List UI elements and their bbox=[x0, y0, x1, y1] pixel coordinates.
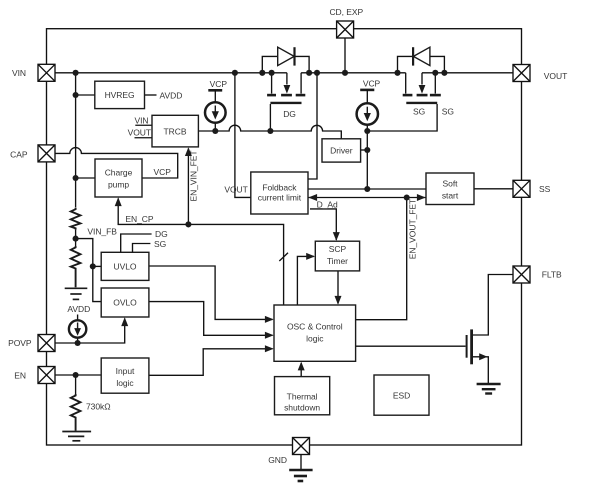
pin FLTB bbox=[513, 266, 562, 283]
svg-text:pump: pump bbox=[108, 180, 129, 190]
wire thermal shutdown to OSC bbox=[300, 363, 302, 377]
wire HVREG input bbox=[76, 94, 95, 96]
svg-text:CD, EXP: CD, EXP bbox=[329, 7, 363, 17]
wire TRCB output to gate node (with hops) bbox=[198, 125, 341, 139]
chip boundary bbox=[47, 29, 522, 445]
svg-text:SG: SG bbox=[154, 239, 166, 249]
wire EN_VOUT_FET bbox=[356, 198, 407, 320]
wire middle rail sense to foldback bbox=[308, 73, 317, 179]
svg-text:Foldback: Foldback bbox=[262, 182, 297, 192]
ground (VIN divider) bbox=[65, 288, 88, 299]
wire OSC to output FET gate bbox=[356, 345, 466, 347]
svg-text:VIN_FB: VIN_FB bbox=[87, 227, 117, 237]
svg-text:SCP: SCP bbox=[329, 244, 347, 254]
svg-text:shutdown: shutdown bbox=[284, 402, 320, 412]
svg-text:VOUT: VOUT bbox=[128, 127, 151, 137]
pin CD, EXP bbox=[329, 7, 363, 38]
block TRCB bbox=[152, 115, 198, 147]
wire UVLO SG sense stub bbox=[133, 244, 151, 253]
block Driver bbox=[322, 139, 361, 162]
wire EN to 730k resistor bbox=[75, 375, 77, 394]
wire POVP pin to OVLO bbox=[55, 319, 125, 344]
svg-text:Soft: Soft bbox=[443, 179, 459, 189]
svg-text:CAP: CAP bbox=[10, 149, 28, 159]
wire CD,EXP pin to rail bbox=[344, 38, 346, 73]
wire EN pin to input logic bbox=[55, 374, 101, 376]
wire GND pin to ground bbox=[300, 455, 302, 471]
svg-text:VIN: VIN bbox=[134, 115, 148, 125]
svg-text:UVLO: UVLO bbox=[114, 262, 137, 272]
svg-text:VCP: VCP bbox=[363, 79, 381, 89]
wire UVLO input bbox=[93, 265, 101, 267]
pin VOUT bbox=[513, 65, 567, 82]
svg-text:VIN: VIN bbox=[12, 68, 26, 78]
svg-text:FLTB: FLTB bbox=[542, 270, 562, 280]
svg-text:start: start bbox=[442, 191, 459, 201]
arrow into OSC left (Input logic) bbox=[265, 345, 274, 352]
pin POVP bbox=[8, 335, 55, 352]
wire EN_VIN_FET branch bbox=[187, 149, 189, 225]
svg-text:POVP: POVP bbox=[8, 338, 32, 348]
svg-text:SG: SG bbox=[442, 107, 454, 117]
svg-text:Timer: Timer bbox=[327, 256, 348, 266]
svg-text:DG: DG bbox=[283, 109, 296, 119]
wire D_Ad line bbox=[308, 197, 426, 199]
svg-text:D_Ad: D_Ad bbox=[317, 199, 338, 209]
label VOUT input of TRCB bbox=[128, 127, 152, 137]
transistor Q3 (FLTB open-drain FET) bbox=[467, 329, 488, 364]
arrow into OVLO bottom bbox=[121, 317, 128, 326]
svg-text:SS: SS bbox=[539, 184, 551, 194]
pin GND bbox=[268, 438, 309, 465]
block OVLO bbox=[101, 288, 149, 317]
ground (730k) bbox=[62, 432, 91, 441]
wire CAP pin to charge pump VCP (with hop) bbox=[55, 148, 178, 178]
wire OVLO output to OSC bbox=[149, 302, 273, 336]
current source I2 VCP (right) bbox=[357, 79, 381, 125]
block Thermal shutdown bbox=[275, 377, 330, 415]
wire VIN branch down from rail bbox=[75, 73, 77, 208]
block Soft start bbox=[426, 173, 474, 205]
block UVLO bbox=[101, 252, 149, 280]
wire soft start to SS pin bbox=[474, 188, 513, 190]
svg-text:ESD: ESD bbox=[393, 391, 410, 401]
diode D1 (DG body diode) bbox=[262, 47, 309, 73]
svg-text:EN_VIN_FET: EN_VIN_FET bbox=[189, 151, 199, 202]
ground (GND pin) bbox=[289, 470, 312, 481]
wire SG gate to drive node bbox=[367, 104, 437, 131]
current source I3 AVDD bbox=[67, 304, 90, 338]
arrow into OSC bottom (thermal) bbox=[298, 362, 305, 371]
transistor Q2 SG FET bbox=[403, 73, 441, 117]
arrow into OSC top (SCP) bbox=[335, 296, 342, 305]
wire UVLO DG sense stub bbox=[121, 234, 152, 252]
svg-text:Charge: Charge bbox=[105, 168, 133, 178]
svg-text:EN_VOUT_FET: EN_VOUT_FET bbox=[408, 199, 418, 259]
wire rail to foldback VOUT input bbox=[235, 73, 251, 198]
block SCP Timer bbox=[315, 241, 359, 271]
arrow into soft start left (D_Ad) bbox=[417, 194, 426, 201]
arrow into TRCB (EN_VIN_FET) bbox=[185, 147, 192, 156]
svg-text:VOUT: VOUT bbox=[224, 185, 247, 195]
svg-text:OSC & Control: OSC & Control bbox=[287, 322, 343, 332]
arrow into SCP top (D_Ad) bbox=[333, 232, 340, 241]
transistor Q1 DG FET bbox=[267, 73, 305, 119]
block ESD bbox=[374, 375, 429, 415]
block Input logic bbox=[101, 358, 149, 393]
svg-text:VCP: VCP bbox=[154, 167, 172, 177]
arrow into charge pump (EN_CP) bbox=[115, 197, 122, 206]
wire VIN resistor tap to UVLO/OVLO bbox=[76, 239, 102, 302]
diode D2 (SG body diode) bbox=[398, 47, 445, 73]
wire VIN rail bbox=[55, 72, 287, 74]
arrow into OSC left (OVLO) bbox=[265, 332, 274, 339]
block Foldback current limit bbox=[251, 172, 308, 214]
arrow into OSC left (UVLO) bbox=[265, 316, 274, 323]
ground (FLTB FET source) bbox=[477, 384, 501, 394]
resistor R1 (VIN divider upper) bbox=[71, 208, 81, 230]
pin VIN bbox=[12, 64, 55, 81]
resistor R3 730k bbox=[71, 394, 81, 431]
block HVREG bbox=[95, 81, 145, 108]
svg-text:730kΩ: 730kΩ bbox=[86, 402, 111, 412]
svg-text:EN: EN bbox=[14, 371, 26, 381]
label VIN input of TRCB bbox=[134, 115, 151, 125]
block OSC & Control logic bbox=[274, 305, 356, 361]
wire input logic output to OSC bbox=[149, 349, 273, 376]
svg-text:VCP: VCP bbox=[210, 79, 228, 89]
wire UVLO output to OSC bbox=[149, 266, 273, 319]
svg-text:SG: SG bbox=[413, 107, 425, 117]
arrow into SCP left (OSC) bbox=[306, 253, 315, 260]
wire DG gate down bbox=[269, 104, 271, 131]
wire AVDD current source to POVP line bbox=[77, 315, 79, 344]
svg-text:Driver: Driver bbox=[330, 146, 353, 156]
svg-text:logic: logic bbox=[116, 378, 134, 388]
svg-text:DG: DG bbox=[155, 229, 168, 239]
arrow into foldback right (D_Ad) bbox=[308, 194, 317, 201]
wire HVREG output to AVDD bbox=[145, 94, 157, 96]
svg-text:HVREG: HVREG bbox=[105, 90, 135, 100]
wire EN_CP / EN_VIN_FET net bbox=[118, 199, 283, 306]
svg-text:OVLO: OVLO bbox=[113, 298, 137, 308]
wire between resistors bbox=[75, 230, 77, 246]
svg-text:Thermal: Thermal bbox=[287, 391, 318, 401]
wire foldback to soft start bbox=[308, 188, 426, 190]
wire SCP timer to OSC top bbox=[337, 271, 339, 304]
svg-text:EN_CP: EN_CP bbox=[125, 214, 153, 224]
svg-text:Input: Input bbox=[116, 366, 135, 376]
svg-text:TRCB: TRCB bbox=[164, 126, 187, 136]
wire FET source to ground bbox=[472, 357, 489, 384]
wire VOUT rail bbox=[422, 72, 513, 74]
svg-text:VOUT: VOUT bbox=[544, 71, 567, 81]
wire charge pump input bbox=[76, 177, 95, 179]
wire VCP source 1 down bbox=[214, 123, 216, 131]
resistor R2 (VIN divider lower) bbox=[71, 246, 81, 287]
wire FET drain to FLTB bbox=[472, 275, 513, 336]
wire VCP source 2 to drive node and soft start line bbox=[366, 126, 368, 190]
wire D_Ad underline to SCP timer bbox=[310, 209, 336, 240]
svg-text:GND: GND bbox=[268, 455, 287, 465]
wire middle rail between FETs bbox=[301, 72, 406, 74]
svg-text:current limit: current limit bbox=[258, 193, 302, 203]
wire driver output bbox=[361, 149, 368, 151]
pin EN bbox=[14, 367, 55, 384]
wire OSC to SCP timer left bbox=[297, 256, 313, 305]
pin SS bbox=[513, 180, 551, 197]
current source I1 VCP (left) bbox=[205, 79, 227, 123]
svg-text:AVDD: AVDD bbox=[67, 304, 90, 314]
bus slash on OSC control bus bbox=[279, 253, 288, 261]
svg-text:logic: logic bbox=[306, 334, 324, 344]
pin CAP bbox=[10, 145, 55, 162]
block Charge pump bbox=[95, 159, 142, 197]
svg-text:AVDD: AVDD bbox=[160, 90, 183, 100]
